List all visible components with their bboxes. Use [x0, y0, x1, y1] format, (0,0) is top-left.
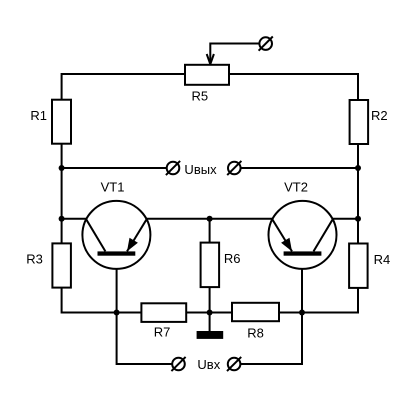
svg-text:VT1: VT1: [101, 180, 125, 195]
svg-text:VT2: VT2: [284, 180, 308, 195]
svg-text:R1: R1: [30, 108, 47, 123]
svg-text:R4: R4: [374, 252, 391, 267]
svg-text:Uвых: Uвых: [184, 162, 217, 177]
svg-text:R5: R5: [191, 89, 208, 104]
svg-text:R2: R2: [371, 108, 388, 123]
svg-text:Uвх: Uвх: [197, 357, 220, 372]
svg-text:R7: R7: [154, 325, 171, 340]
svg-text:R3: R3: [26, 252, 43, 267]
svg-text:R8: R8: [247, 326, 264, 341]
svg-text:R6: R6: [224, 251, 241, 266]
